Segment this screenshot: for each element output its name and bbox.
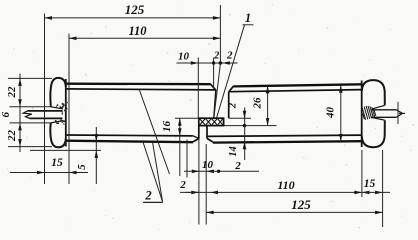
dim 110 top left arrow: [69, 37, 77, 41]
item 2 leader to bottom facing (right): [153, 142, 163, 202]
extension of lip top line to right: [224, 125, 277, 127]
svg-text:22: 22: [6, 86, 18, 99]
arrow down at 106.8: [18, 99, 22, 107]
dim 2 bottom arrow (pointing right at 198.8): [191, 191, 199, 195]
dim 15 left arrow (outside, pointing right at 44.5): [37, 171, 45, 175]
dim 110 bottom right arrow: [354, 191, 362, 195]
sealant stipple in left cap slot: [55, 102, 68, 125]
dim 125 top left arrow: [45, 16, 53, 20]
dim 125 bottom line: [206, 211, 382, 213]
extension line for 5 (below cap): [30, 149, 101, 151]
left panel bottom face inner line: [66, 134, 193, 137]
svg-text:110: 110: [128, 24, 147, 38]
dim 125 bottom right arrow: [375, 211, 383, 215]
left cap outline lower part: [50, 123, 65, 147]
extension line x=198.8 (long): [198, 139, 200, 225]
left panel lower end face: [198, 125, 200, 138]
tongue broken pointed tip: [396, 110, 402, 118]
dim 16 arrow up: [178, 118, 182, 126]
left panel bottom-right chamfer (inner): [193, 136, 199, 139]
extension line x=198.3 (10 dim left): [197, 58, 199, 118]
left cap outline upper part: [50, 78, 65, 107]
tongue tip extension line: [399, 112, 405, 114]
left panel top face inner line: [66, 89, 216, 90]
dim dot at 213.6: [212, 61, 215, 64]
right cap slot lower wall: [372, 118, 385, 121]
extension line slot top: [10, 106, 52, 108]
left panel upper end face (inclined): [214, 90, 216, 118]
right cap outline lower part: [362, 120, 385, 147]
item 2 underline: [143, 201, 163, 203]
dim 14 arrow up at 141.8: [243, 142, 247, 150]
dim 10 bottom arrow (pointing right at 204.8): [192, 170, 200, 174]
svg-text:1: 1: [245, 11, 251, 25]
extension line x=361.9 (cap inner right): [361, 150, 363, 197]
svg-text:125: 125: [125, 2, 145, 17]
right panel lower lip left face: [206, 126, 208, 139]
left panel top-right chamfer: [210, 84, 216, 91]
break tick vertical at right tongue: [397, 102, 399, 124]
sealant hatch in right cap slot: [362, 106, 376, 120]
svg-text:10: 10: [178, 51, 190, 63]
item 1 leader line: [217, 25, 245, 118]
dim 10 top line: [177, 62, 238, 64]
svg-text:22: 22: [6, 130, 18, 143]
dim 2 (step) vertical line: [244, 108, 246, 161]
extension of step line to right: [229, 117, 251, 119]
dim 40 arrow down: [339, 134, 343, 142]
dim 125 top line: [45, 17, 221, 19]
dim 15 right line tail: [362, 191, 390, 193]
dim 5 arrow down at 141.6: [95, 134, 99, 142]
dim 26 arrow up: [266, 86, 270, 94]
svg-text:16: 16: [161, 121, 173, 133]
tongue break zigzag: [23, 111, 32, 119]
right panel top face outer line: [234, 84, 362, 86]
right panel top face inner line: [229, 90, 362, 92]
arrow up at 122.9: [18, 123, 22, 130]
extension of step line to left: [175, 117, 199, 119]
extension line left cap outer (x=44.5): [44, 14, 46, 185]
extension line cap top tangent: [8, 77, 52, 79]
dim 110 top right arrow: [213, 37, 221, 41]
left panel bottom face outer line: [66, 141, 193, 143]
right cap inner edge: [361, 81, 363, 148]
extension line x=204.8: [205, 144, 207, 225]
left panel top face outer line: [66, 83, 210, 86]
dim 40 arrow up: [339, 85, 343, 93]
dim 110 bottom line: [186, 191, 362, 193]
right panel bottom face inner line: [207, 135, 362, 136]
dim 26 vertical line: [267, 86, 269, 126]
dim 2 arrow (pointing left at 220.4): [222, 61, 230, 65]
svg-text:110: 110: [277, 178, 294, 192]
item 2 leader to top facing (long diagonal): [139, 90, 169, 174]
extension line left cap inner (x=69): [68, 34, 70, 185]
svg-text:5: 5: [76, 164, 88, 170]
extension line x=382.6 (cap outer right): [382, 150, 384, 227]
dim 16 vertical line: [179, 118, 181, 176]
left dim chain vertical line: [19, 74, 21, 153]
dim 110 bottom left arrow (pointing left at 211.9): [211, 191, 219, 195]
svg-text:26: 26: [251, 97, 263, 110]
dim 2 arrow down at 118.2: [243, 111, 247, 119]
dim 10 top arrow (pointing right at 198.3): [191, 61, 199, 65]
extension line joint right (x=220.4, long): [219, 5, 221, 64]
dim 110 top line: [69, 37, 220, 39]
right cap slot upper wall: [372, 105, 385, 109]
svg-text:2: 2: [144, 189, 151, 203]
sealant box outline: [199, 118, 224, 125]
svg-text:10: 10: [202, 159, 214, 171]
svg-text:40: 40: [325, 107, 337, 120]
extension line x=213.6: [213, 58, 215, 89]
adjacent tongue bottom edge: [372, 116, 397, 118]
svg-text:2: 2: [213, 51, 219, 62]
svg-text:2: 2: [234, 160, 241, 172]
svg-text:2: 2: [179, 179, 186, 191]
dim 5 arrow up at 150.4: [95, 150, 99, 158]
dim 10 bottom line: [184, 170, 259, 172]
dim 15 left line: [10, 172, 88, 174]
left cap slot upper wall: [51, 107, 63, 109]
extension line x=186.8: [186, 140, 188, 178]
extension line cap bottom tangent: [8, 146, 52, 148]
dim 16 arrow down: [178, 128, 182, 136]
sealant gasket X pattern: [200, 119, 223, 125]
svg-text:125: 125: [291, 197, 311, 212]
extension line slot bottom: [10, 122, 52, 124]
dim 5 vertical line: [95, 127, 97, 184]
left cap slot lower wall: [51, 121, 63, 123]
adjacent tongue (broken) bottom edge: [30, 117, 63, 119]
item 1 underline: [243, 24, 254, 26]
dim 26 arrow down: [266, 118, 270, 126]
svg-text:6: 6: [0, 112, 12, 118]
svg-text:15: 15: [364, 178, 376, 190]
arrow down at 146.6: [18, 139, 22, 147]
dim 15 right arrow (outside, pointing left at 69): [69, 171, 77, 175]
dim 125 top right arrow: [213, 16, 221, 20]
dim dot at 220.4: [219, 61, 222, 64]
dim dot at 125.6: [243, 124, 246, 127]
dim dot bottom at 186.8: [217, 170, 220, 173]
left cap inner edge: [65, 79, 67, 147]
dim 15 right arrows: [362, 191, 370, 195]
left panel bottom-right chamfer (outer): [193, 138, 199, 142]
adjacent tongue (broken) entering right cap, top edge: [372, 109, 397, 111]
svg-text:15: 15: [51, 157, 63, 169]
svg-text:2: 2: [226, 50, 233, 62]
dim 125 bottom left arrow: [206, 211, 214, 215]
right panel bottom face outer line: [213, 141, 362, 142]
item 2 leader to bottom facing (left): [143, 142, 163, 202]
right panel step shelf front: [223, 118, 225, 125]
arrow up at 78.4: [18, 78, 22, 86]
right panel lower lip chamfer: [207, 138, 213, 142]
adjacent tongue (broken) top edge: [28, 110, 63, 112]
right panel upper end face: [228, 92, 230, 118]
svg-text:2: 2: [227, 102, 238, 109]
right cap outline upper part: [362, 80, 385, 105]
inclined extension to sealant corner: [214, 64, 221, 118]
dim 40 vertical line: [340, 85, 342, 141]
svg-text:14: 14: [228, 146, 239, 157]
right panel top-left chamfer: [229, 86, 234, 92]
